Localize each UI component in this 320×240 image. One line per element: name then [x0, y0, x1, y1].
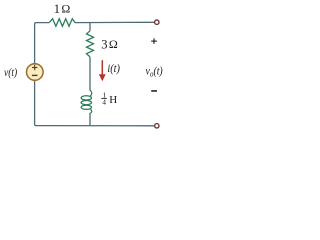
current arrow i(t)	[99, 60, 106, 81]
svg-text:Ω: Ω	[61, 2, 70, 16]
wire middle branch bottom stub	[89, 113, 91, 126]
label minus output	[151, 90, 157, 92]
svg-text:H: H	[109, 94, 117, 106]
svg-text:i(t): i(t)	[107, 63, 120, 75]
svg-text:3: 3	[101, 37, 107, 51]
wire top horizontal right of R1 to terminal	[75, 21, 154, 23]
terminal top-right open circle	[155, 20, 159, 24]
label plus output	[151, 38, 157, 44]
voltage source V1 circle	[27, 64, 44, 81]
terminal bottom-right open circle	[155, 124, 159, 128]
svg-text:v(t): v(t)	[4, 67, 17, 79]
svg-text:Ω: Ω	[109, 37, 118, 51]
resistor R1 1-ohm zigzag	[49, 19, 75, 27]
resistor R2 3-ohm zigzag vertical	[87, 31, 94, 57]
svg-text:vo(t): vo(t)	[146, 66, 163, 79]
wire left vertical lower + bottom horizontal	[35, 80, 155, 126]
inductor L1 1/4 H coil	[81, 90, 92, 113]
source plus sign	[32, 65, 37, 70]
svg-text:4: 4	[102, 97, 106, 106]
wire middle branch between R2 and inductor	[89, 57, 91, 91]
source minus sign	[32, 74, 38, 76]
svg-text:1: 1	[54, 2, 60, 16]
wire middle branch top stub	[89, 23, 91, 31]
wire left vertical (source top to top-left corner)	[35, 23, 50, 64]
label 1/4 H fraction	[101, 91, 117, 107]
